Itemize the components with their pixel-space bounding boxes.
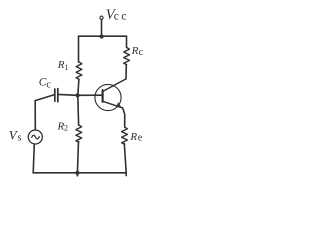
wire top rail bbox=[79, 35, 127, 37]
svg-text:R: R bbox=[129, 131, 137, 143]
transistor Q1 emitter arrow bbox=[116, 102, 122, 107]
wire left branch upper bbox=[78, 36, 80, 62]
label Vs bbox=[9, 127, 22, 143]
wire collector to Rc bbox=[125, 65, 127, 79]
wire Cc to base bbox=[58, 93, 102, 96]
node Vcc terminal bbox=[100, 16, 103, 19]
svg-text:s: s bbox=[18, 133, 22, 144]
transistor Q1 base bar bbox=[101, 90, 103, 102]
svg-text:cc: cc bbox=[114, 11, 129, 23]
resistor Re bbox=[122, 127, 128, 144]
wire emitter to Re bbox=[123, 108, 125, 127]
wire bottom rail bbox=[33, 172, 126, 174]
label Cc bbox=[39, 77, 52, 91]
label Rc bbox=[131, 45, 144, 58]
capacitor Cc bbox=[54, 89, 56, 101]
svg-text:e: e bbox=[138, 133, 143, 144]
label Vcc bbox=[106, 7, 129, 23]
source Vs (AC) bbox=[28, 130, 42, 144]
wire Vs upper lead bbox=[34, 101, 36, 130]
transistor Q1 circle bbox=[95, 84, 121, 110]
label R1 bbox=[57, 59, 69, 72]
wire base node down to R2 bbox=[77, 95, 80, 125]
node base junction bbox=[76, 93, 80, 97]
wire input horizontal to Cc bbox=[35, 95, 54, 101]
wire Vcc stub bbox=[101, 20, 103, 37]
wire R1 to base node bbox=[78, 79, 79, 95]
svg-text:R: R bbox=[131, 45, 139, 57]
transistor Q1 collector lead bbox=[103, 79, 126, 92]
label Re bbox=[129, 131, 142, 144]
wire top rail to Rc bbox=[126, 36, 128, 47]
resistor R2 bbox=[76, 125, 82, 142]
svg-text:c: c bbox=[139, 47, 144, 58]
resistor Rc bbox=[124, 47, 130, 64]
resistor R1 bbox=[76, 62, 82, 79]
wire R2 to bottom rail bbox=[77, 141, 78, 175]
node junction top rail bbox=[100, 34, 104, 38]
label R2 bbox=[57, 121, 69, 133]
node junction bottom rail bbox=[75, 171, 79, 175]
svg-text:c: c bbox=[46, 80, 51, 91]
wire Vs lower lead bbox=[33, 144, 34, 173]
svg-text:1: 1 bbox=[64, 63, 68, 72]
transistor Q1 emitter lead bbox=[103, 101, 123, 108]
wire Re to bottom rail bbox=[124, 143, 126, 175]
svg-text:2: 2 bbox=[64, 123, 68, 132]
